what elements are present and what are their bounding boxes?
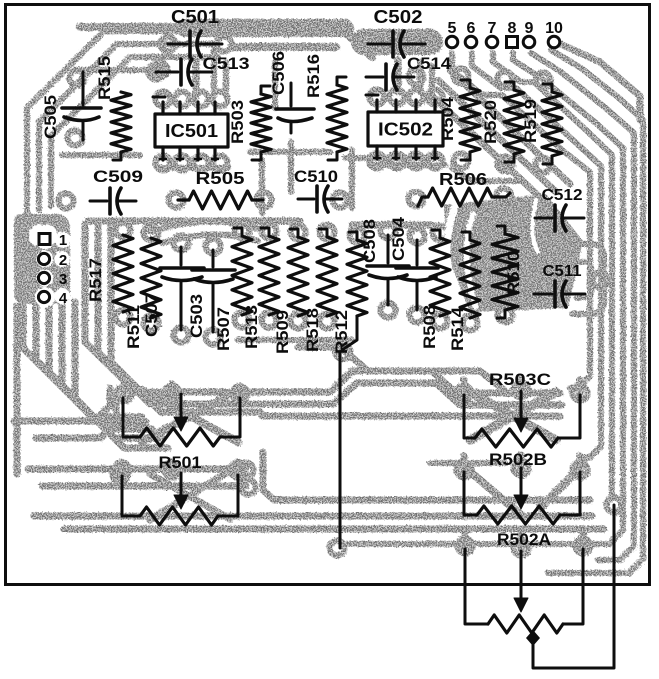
- pad IC502 p6: [390, 154, 405, 169]
- pad C511 l: [527, 287, 542, 302]
- pad R501b b: [165, 463, 180, 478]
- pad IC501 p6: [175, 156, 190, 171]
- svg-text:R507: R507: [214, 307, 233, 351]
- svg-text:R503: R503: [228, 100, 247, 144]
- trace X2b: [150, 472, 228, 520]
- pad 1 left: [39, 234, 50, 245]
- trace row rail: [88, 218, 300, 225]
- potentiometer R501 lower section: [122, 473, 238, 525]
- trace arc R505 a: [150, 221, 262, 232]
- R512 bottom lead: [342, 316, 357, 350]
- pad IC502 p2: [390, 90, 405, 105]
- trace t10: [259, 160, 265, 213]
- pad R501 b: [165, 386, 180, 401]
- trace C502 blob: [364, 29, 430, 55]
- svg-text:R514: R514: [448, 306, 467, 351]
- svg-text:C510: C510: [294, 167, 338, 186]
- pad row t1: [116, 223, 131, 238]
- white channel in copper pour: [29, 200, 538, 307]
- trace top band thin: [80, 23, 190, 31]
- pad R503C a: [457, 386, 472, 401]
- pad IC501 p5: [156, 156, 171, 171]
- copper underlay: [14, 27, 643, 573]
- resistor R503: [251, 94, 271, 152]
- trace eye 1: [572, 244, 604, 314]
- pad 8 top right: [507, 37, 518, 48]
- svg-text:R503C: R503C: [489, 370, 551, 389]
- pad C505 top: [70, 71, 85, 86]
- pad wire bot: [330, 541, 345, 556]
- svg-text:R519: R519: [521, 99, 540, 143]
- trace from pad 8: [348, 53, 623, 544]
- pad IC502 p3: [409, 90, 424, 105]
- trace top-left ring 1: [27, 31, 212, 214]
- capacitor C510: [298, 186, 342, 212]
- svg-text:7: 7: [488, 20, 497, 37]
- svg-text:C511: C511: [543, 263, 582, 280]
- trace X4b: [540, 470, 578, 508]
- trace bl 4: [42, 483, 246, 490]
- pad row t6: [262, 224, 277, 239]
- pad row b9: [336, 345, 351, 360]
- trace stub R502A m: [518, 533, 525, 549]
- pad C501 r: [217, 37, 232, 52]
- svg-text:R517: R517: [86, 258, 105, 302]
- pad R504 b: [454, 154, 469, 169]
- capacitor C513: [156, 59, 212, 85]
- svg-text:C503: C503: [187, 294, 206, 338]
- trace left bundle 2: [36, 302, 146, 422]
- svg-text:R501: R501: [159, 453, 202, 472]
- trace stub R502B r: [577, 456, 584, 471]
- potentiometer R503C: [464, 391, 580, 447]
- trace pad10 corner: [556, 42, 640, 120]
- pad R502B c: [573, 463, 588, 478]
- trace bl 2: [36, 400, 116, 438]
- pad row t8: [320, 225, 335, 240]
- trace center 1: [250, 371, 560, 393]
- pad R501b a: [115, 463, 130, 478]
- trace X1a: [142, 390, 238, 442]
- resistor R520: [504, 90, 524, 154]
- pad R503C b: [514, 383, 529, 398]
- trace left bundle 3: [49, 302, 152, 429]
- pad bl3: [241, 480, 256, 495]
- pad row t10: [381, 224, 396, 239]
- IC IC501: [153, 97, 228, 160]
- pad R501b c: [231, 463, 246, 478]
- pad C502 l: [361, 37, 376, 52]
- resistor R505: [178, 198, 189, 201]
- trace stub R501b r: [235, 462, 242, 475]
- pad C512 l: [528, 211, 543, 226]
- svg-text:R515: R515: [95, 56, 114, 100]
- capacitor C503: [192, 250, 235, 332]
- resistor R517: [113, 235, 133, 312]
- svg-text:R502A: R502A: [497, 530, 551, 549]
- potentiometer R502A: [465, 549, 583, 633]
- trace bl 1: [14, 388, 110, 421]
- trace top-left ring 3: [51, 57, 218, 206]
- pad R515 top: [153, 63, 168, 78]
- pad R502A b: [514, 541, 529, 556]
- capacitor C504: [396, 240, 438, 310]
- svg-text:C506: C506: [269, 51, 288, 95]
- trace diag B: [430, 94, 545, 202]
- capacitor C508: [367, 235, 409, 305]
- resistor R518: [317, 237, 337, 316]
- trace X2a: [150, 474, 230, 519]
- potentiometer R501: [123, 394, 240, 446]
- svg-text:C504: C504: [389, 216, 408, 261]
- trace t6: [452, 168, 520, 181]
- pad row t7: [291, 225, 306, 240]
- trace stub R502B l: [461, 456, 468, 471]
- svg-text:1: 1: [59, 232, 67, 249]
- pad R520 b: [498, 157, 513, 172]
- pad row t9: [350, 228, 365, 243]
- resistor R507: [232, 236, 252, 315]
- svg-text:IC502: IC502: [378, 119, 433, 140]
- pad R519 t: [536, 73, 551, 88]
- pad R502A c: [576, 539, 591, 554]
- svg-text:4: 4: [59, 290, 68, 307]
- svg-text:C512: C512: [542, 187, 583, 204]
- pad row b1: [116, 310, 131, 325]
- pad row b6: [262, 313, 277, 328]
- trace t5: [345, 155, 440, 161]
- trace row under-labels: [238, 337, 352, 343]
- svg-text:3: 3: [59, 271, 67, 288]
- long vertical wire from R512: [339, 352, 342, 548]
- trace X3b: [470, 392, 556, 440]
- trace band link: [346, 33, 372, 57]
- trace stub R501 r: [237, 386, 244, 398]
- trace t12: [349, 150, 355, 208]
- trace left bundle 1: [23, 302, 142, 417]
- svg-text:R509: R509: [273, 310, 292, 354]
- svg-text:C513: C513: [203, 54, 250, 73]
- pad IC502 p7: [409, 154, 424, 169]
- pad bl: [113, 468, 128, 483]
- trace from pad 7: [493, 53, 612, 498]
- trace stub R502B m: [518, 455, 525, 469]
- pad R506 r: [497, 189, 512, 204]
- trace row rail b: [352, 222, 432, 229]
- svg-text:9: 9: [525, 20, 534, 37]
- trace t1: [62, 152, 140, 158]
- pad R502B a: [457, 463, 472, 478]
- pad C510 r: [333, 193, 348, 208]
- capacitor C514: [366, 64, 414, 90]
- trace tv1b: [223, 62, 229, 96]
- pad IC501 p1: [156, 92, 171, 107]
- svg-text:R510: R510: [504, 251, 523, 295]
- pad IC501 p4: [213, 92, 228, 107]
- trace center 2: [256, 383, 562, 405]
- pad row b2: [144, 316, 159, 331]
- trace center 3: [262, 413, 560, 420]
- trace left edge: [14, 306, 21, 474]
- pad R504 t: [454, 69, 469, 84]
- trace X3a: [470, 392, 556, 440]
- pad row t14: [498, 222, 513, 237]
- svg-text:IC501: IC501: [165, 120, 218, 141]
- trace eye 2: [576, 262, 592, 298]
- trace stub R502A l: [462, 532, 469, 548]
- pad row b10: [381, 303, 396, 318]
- trace X1b: [142, 390, 238, 442]
- potentiometer R502B: [464, 468, 580, 524]
- trace r502b h: [430, 460, 505, 466]
- trace tv3: [395, 60, 402, 92]
- trace c505 h: [75, 67, 160, 73]
- trace from pad 9: [531, 53, 634, 560]
- resistor R513: [259, 236, 279, 315]
- capacitor C512: [535, 205, 584, 231]
- pad row b4: [206, 330, 221, 345]
- resistor R508: [430, 238, 450, 316]
- pad IC502 p8: [428, 154, 443, 169]
- trace mid-left 3: [111, 224, 260, 412]
- capacitor C505: [62, 72, 101, 140]
- pad IC502 p5: [370, 154, 385, 169]
- trace mid-left 2: [98, 224, 255, 404]
- pad IC501 p3: [194, 92, 209, 107]
- pad row t13: [463, 228, 478, 243]
- trace stub R503C r: [577, 380, 584, 394]
- svg-text:5: 5: [448, 20, 457, 37]
- trace long 516: [34, 513, 592, 520]
- resistor R504: [460, 88, 480, 152]
- wire from wiper junction to return: [533, 505, 614, 668]
- pad R505 r: [257, 193, 272, 208]
- pad row t11: [410, 229, 425, 244]
- pad eye: [593, 273, 608, 288]
- pad 3 left: [38, 272, 49, 283]
- trace stub R501b l: [119, 462, 126, 476]
- trace stub R501b m: [169, 462, 176, 476]
- pad C509 l: [59, 194, 74, 209]
- pad R501 a: [117, 387, 132, 402]
- capacitor C509: [90, 188, 136, 214]
- trace tv3b: [429, 66, 435, 92]
- junction dot: [526, 630, 540, 646]
- resistor R506: [418, 197, 428, 206]
- trace from pad 6: [472, 53, 601, 458]
- svg-text:R502B: R502B: [489, 450, 547, 469]
- trace stub R501 l: [121, 384, 128, 398]
- pad C501 l: [161, 37, 176, 52]
- trace top band 2: [232, 43, 336, 51]
- IC IC502: [366, 95, 443, 159]
- svg-text:R518: R518: [303, 308, 322, 352]
- pad row b8: [320, 314, 335, 329]
- pad return: [607, 498, 622, 513]
- resistor R512: [347, 240, 367, 316]
- pad C505 bot: [68, 131, 83, 146]
- pad row t5: [235, 224, 250, 239]
- pad R520 t: [498, 72, 513, 87]
- trace t9: [370, 162, 445, 168]
- trace X4a: [468, 470, 520, 514]
- pad row t4: [206, 239, 221, 254]
- svg-text:R513: R513: [242, 305, 261, 349]
- pad R502B b: [514, 461, 529, 476]
- svg-text:C509: C509: [93, 167, 143, 186]
- svg-text:R506: R506: [439, 169, 487, 189]
- capacitor C502: [368, 31, 425, 57]
- trace long 529: [64, 526, 604, 533]
- trace tv0: [272, 62, 278, 108]
- trace mid-left 1: [85, 224, 250, 392]
- pad 9 top right: [523, 36, 535, 48]
- pad 5 top right: [446, 36, 458, 48]
- pad 6 top right: [465, 36, 477, 48]
- capacitor C507: [160, 247, 204, 330]
- pad row b12: [433, 314, 448, 329]
- trace tv1: [193, 60, 200, 96]
- pad 2 left: [38, 253, 49, 264]
- trace left bundle 4: [62, 302, 162, 438]
- pad 4 left: [38, 291, 49, 302]
- pad IC502 p4: [428, 90, 443, 105]
- resistor R516: [327, 85, 347, 152]
- capacitor C501: [168, 31, 222, 57]
- pad R506 l: [409, 192, 424, 207]
- trace top band thick: [185, 19, 345, 37]
- trace long 500: [263, 452, 590, 500]
- svg-text:R508: R508: [420, 305, 439, 349]
- capacitor C511: [534, 281, 585, 307]
- pad R502A a: [458, 539, 473, 554]
- pad row b11: [410, 308, 425, 323]
- pad R505 l: [169, 193, 184, 208]
- pad IC502 p1: [370, 90, 385, 105]
- pad row t2: [144, 226, 159, 241]
- trace upper stair: [298, 347, 504, 390]
- trace diag A: [438, 80, 556, 192]
- pad IC501 p7: [194, 156, 209, 171]
- svg-text:8: 8: [508, 20, 517, 37]
- trace stub R501 m: [169, 384, 176, 398]
- trace t4: [250, 149, 330, 155]
- resistor R509: [288, 237, 308, 316]
- trace left bundle 5: [75, 302, 168, 448]
- trace stub R503C m: [518, 378, 525, 392]
- trace stub R503C l: [461, 380, 468, 395]
- pad row b14: [498, 308, 513, 323]
- svg-text:2: 2: [59, 252, 67, 269]
- pad row b3: [174, 328, 189, 343]
- resistor R510: [492, 234, 518, 310]
- pad row b5: [235, 313, 250, 328]
- trace top-left ring 2: [39, 44, 214, 210]
- pad row b7: [291, 314, 306, 329]
- pad R501 c: [233, 387, 248, 402]
- svg-text:R516: R516: [304, 54, 323, 98]
- resistor R514: [460, 240, 480, 318]
- trace bl 3: [28, 466, 240, 473]
- trace stub R502A r: [580, 532, 587, 547]
- pad C513 l: [149, 65, 164, 80]
- svg-text:10: 10: [545, 20, 563, 37]
- svg-text:6: 6: [467, 20, 476, 37]
- svg-text:R511: R511: [124, 305, 143, 349]
- pad IC501 p8: [213, 156, 228, 171]
- pad row b13: [463, 316, 478, 331]
- trace from pad 5: [452, 53, 590, 388]
- pad C502 r: [419, 37, 434, 52]
- trace tv4: [417, 62, 423, 92]
- svg-text:C505: C505: [41, 95, 60, 139]
- svg-text:C502: C502: [374, 7, 423, 27]
- pad IC501 p2: [175, 92, 190, 107]
- pad 10 top right: [548, 36, 560, 48]
- svg-text:R505: R505: [196, 168, 245, 188]
- pad R503C c: [573, 386, 588, 401]
- pad R519 b: [536, 158, 551, 173]
- resistor R511: [141, 238, 161, 318]
- pad C514 r: [409, 70, 424, 85]
- copper pour blob: [444, 194, 583, 312]
- trace t8: [158, 165, 228, 171]
- trace arc R505 b: [162, 234, 258, 243]
- resistor R515: [111, 92, 131, 152]
- pad 7 top right: [486, 36, 498, 48]
- trace from pad 10: [548, 50, 643, 573]
- capacitor C506: [276, 83, 314, 133]
- pad row t3: [174, 236, 189, 251]
- svg-text:C501: C501: [171, 7, 219, 27]
- trace t11: [288, 142, 294, 192]
- trace tv2: [211, 48, 217, 92]
- pad row t12: [433, 226, 448, 241]
- copper fill behind pads 1-4: [14, 214, 70, 304]
- svg-text:R520: R520: [481, 100, 500, 144]
- pad bl2: [239, 463, 254, 478]
- svg-text:C514: C514: [407, 54, 452, 73]
- resistor R519: [542, 92, 562, 156]
- trace diag C: [450, 70, 570, 184]
